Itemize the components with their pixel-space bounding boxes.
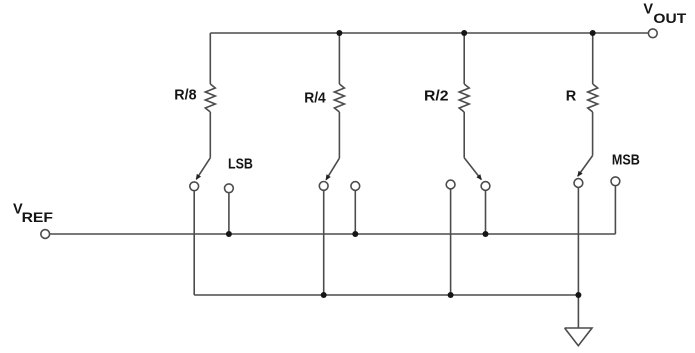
wire R/2 top segment [463,33,465,84]
resistor R/2 [459,84,469,112]
junction dot VREF S2 [352,231,358,237]
switch S4 arm [578,156,593,177]
wire S1 right throw stub to VREF rail [228,193,230,234]
resistor R [588,84,598,112]
wire S2 left throw to bottom bus [323,190,325,295]
svg-text:V: V [643,1,653,17]
switch S3 right throw circle [481,182,490,191]
svg-text:MSB: MSB [612,153,640,169]
wire R/4 top segment [338,33,340,84]
svg-text:R/2: R/2 [424,89,449,105]
switch S4 left throw circle [574,179,583,188]
resistor R/4 [334,84,344,112]
wire R/4 bottom segment [338,112,340,158]
wire S3 right throw stub to VREF rail [485,190,487,234]
switch S3 left throw circle [446,180,455,189]
junction dot top rail R [590,30,596,36]
switch S2 left throw circle [319,182,328,191]
wire R/8 top segment [209,33,211,84]
switch S4 right throw circle [611,177,620,186]
ground [565,328,592,346]
terminal VOUT circle [648,29,657,38]
switch S3 arm [464,158,481,180]
resistor R/8 [205,84,215,112]
wire S3 left throw to bottom bus [450,189,452,295]
wire R/8 bottom segment [209,112,211,158]
svg-text:REF: REF [22,209,54,225]
switch S1 right throw circle [225,184,234,193]
wire S4 left throw to ground [577,187,579,328]
svg-text:R/4: R/4 [304,91,326,107]
switch S2 arm [326,158,339,180]
switch S2 right throw circle [351,182,360,191]
junction dot VREF S1 [226,231,232,237]
junction dot top rail R/4 [336,30,342,36]
wire S1 left throw to bottom bus [193,191,195,295]
switch S1 arm [196,158,210,180]
junction dot VREF S3 [483,231,489,237]
svg-text:R: R [566,88,577,104]
wire bottom bus [194,294,578,296]
wire S4 right throw stub to VREF rail [614,186,616,234]
junction dot bus S3 [448,292,454,298]
junction dot top rail R/2 [461,30,467,36]
svg-text:R/8: R/8 [174,88,196,104]
wire top rail [210,32,648,34]
wire S2 right throw stub to VREF rail [354,190,356,234]
junction dot bus S4 [575,292,581,298]
wire R/2 bottom segment [463,112,465,158]
terminal VREF circle [41,230,50,239]
svg-text:OUT: OUT [653,10,686,26]
svg-text:LSB: LSB [228,157,253,173]
switch S1 left throw circle [190,182,199,191]
wire R bottom segment [592,112,594,156]
junction dot bus S2 [321,292,327,298]
wire VREF rail [50,233,616,235]
wire R top segment [592,33,594,84]
